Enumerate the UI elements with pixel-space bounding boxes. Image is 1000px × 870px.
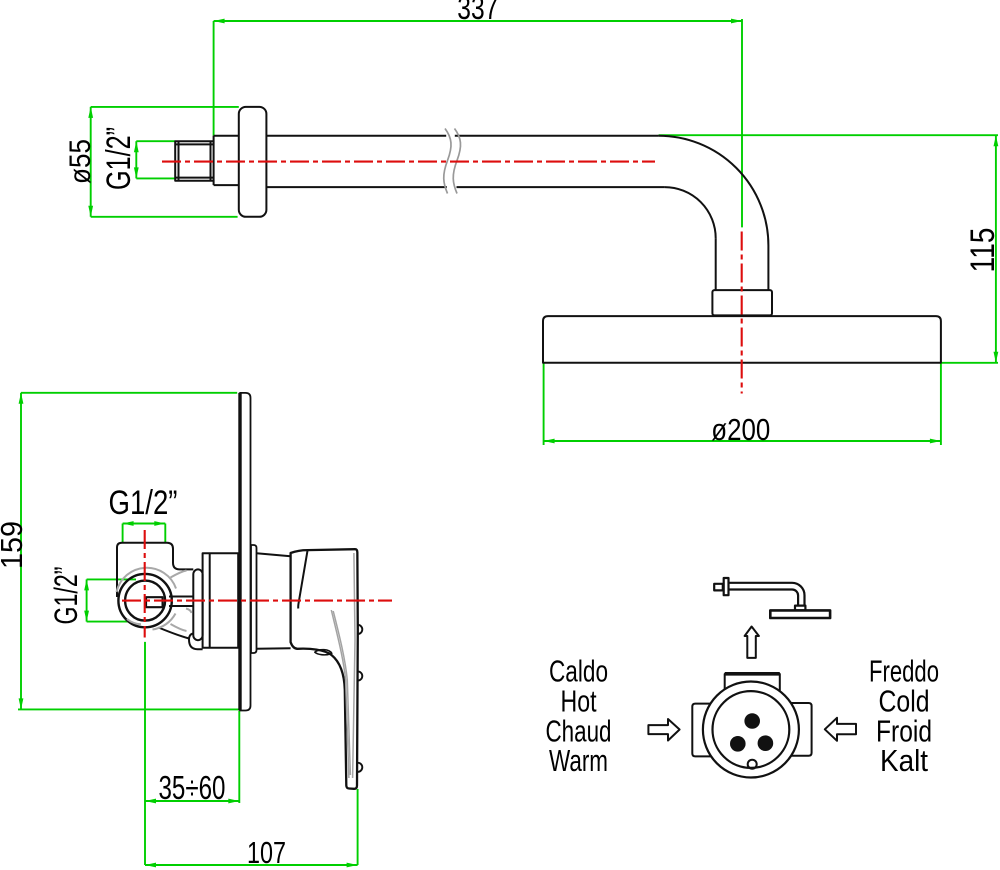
svg-text:159: 159 (0, 521, 29, 569)
svg-text:G1/2”: G1/2” (100, 127, 138, 190)
svg-text:ø200: ø200 (711, 412, 770, 447)
svg-text:ø55: ø55 (64, 139, 97, 184)
svg-text:Warm: Warm (549, 743, 608, 778)
svg-text:35÷60: 35÷60 (159, 769, 226, 806)
svg-text:115: 115 (964, 228, 1000, 273)
svg-text:Kalt: Kalt (880, 743, 928, 778)
svg-text:107: 107 (247, 835, 286, 870)
svg-text:G1/2”: G1/2” (109, 484, 178, 522)
svg-text:337: 337 (457, 0, 498, 26)
svg-text:G1/2”: G1/2” (48, 567, 84, 625)
